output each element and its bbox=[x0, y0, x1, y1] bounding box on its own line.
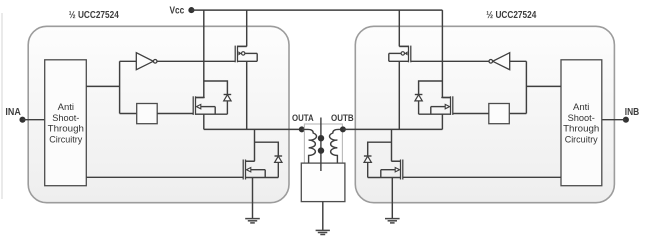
wire Q4 bottom lead bbox=[389, 60, 409, 62]
wire OUTB output line bbox=[343, 128, 443, 130]
figure frame edge (decor line) bbox=[1, 13, 3, 199]
wire anti-block output (left) bbox=[86, 85, 119, 87]
wire Q6 bottom lead bbox=[368, 177, 401, 179]
wire INA to anti-shoot-through block bbox=[23, 119, 45, 121]
diode D2 (left clamp diode) bbox=[275, 156, 283, 178]
anti shoot-through circuitry block (left) bbox=[45, 60, 87, 186]
wire Vcc rail bbox=[191, 9, 442, 11]
wire anti-block output (right) bbox=[526, 85, 561, 87]
transformer T1 bobbin outline bbox=[304, 124, 342, 163]
wire Q3 branch to diode D2 bbox=[255, 142, 279, 156]
svg-text:½ UCC27524: ½ UCC27524 bbox=[486, 10, 536, 21]
wire INB to anti-shoot-through block bbox=[602, 119, 626, 121]
wire Vcc drop to Q2 drain bbox=[203, 10, 205, 97]
inverter U3 (right) bbox=[489, 53, 510, 70]
svg-text:OUTB: OUTB bbox=[331, 113, 354, 124]
wire to inverter input (right) bbox=[510, 60, 527, 62]
diode D3 (right boost diode) bbox=[415, 95, 423, 115]
svg-text:½ UCC27524: ½ UCC27524 bbox=[69, 10, 119, 21]
wire Q5 bottom lead bbox=[419, 113, 451, 115]
wire split vertical (right) bbox=[525, 61, 527, 113]
wire Vcc branch to diode D1 bbox=[204, 81, 228, 95]
wire Q4 top lead bbox=[399, 45, 408, 47]
svg-text:OUTA: OUTA bbox=[292, 113, 314, 124]
diode D1 (left boost diode) bbox=[224, 95, 232, 115]
driver IC block U1A (left half UCC27524) bbox=[28, 26, 289, 202]
ground symbol (right block) bbox=[385, 219, 400, 223]
wire to delay box (right) bbox=[509, 113, 526, 115]
wire OUTA output line bbox=[204, 128, 302, 130]
node Vcc terminal dot bbox=[188, 7, 194, 13]
svg-text:Vcc: Vcc bbox=[170, 6, 185, 17]
node INB terminal dot bbox=[623, 117, 629, 123]
ground symbol (transformer) bbox=[316, 230, 330, 234]
wire Q1 bottom lead bbox=[238, 60, 258, 62]
transistor Q6 (right N-channel pull-down) bbox=[381, 160, 403, 180]
wire Q1 top lead bbox=[238, 45, 247, 47]
wire Vcc drop to Q5 drain bbox=[441, 10, 443, 97]
transformer T1 core line bbox=[320, 118, 322, 172]
wire Q3 bottom lead bbox=[246, 177, 279, 179]
wire Vcc branch to diode D3 bbox=[419, 81, 443, 95]
node INA terminal dot bbox=[19, 117, 25, 123]
wire transformer base to ground bbox=[322, 202, 324, 231]
wire Vcc drop to Q1 source bbox=[246, 10, 248, 46]
transistor Q1 (left P-channel pull-up) bbox=[235, 46, 257, 63]
transformer T1 phasing dot (upper) bbox=[318, 135, 324, 141]
wire delay box to Q5 gate bbox=[453, 113, 489, 115]
transformer T1 secondary winding (right) bbox=[330, 129, 343, 163]
delay box (left) bbox=[137, 104, 158, 124]
wire anti-block to Q3 gate bbox=[86, 176, 243, 178]
wire Q3 source to ground bbox=[252, 178, 254, 219]
transformer T1 primary winding (left) bbox=[302, 129, 317, 163]
wire Q2 top lead bbox=[196, 97, 204, 99]
wire Q6 branch to diode D4 bbox=[368, 142, 392, 156]
wire Q3 drain to OUTA bbox=[254, 129, 256, 161]
wire to delay box (left) bbox=[120, 113, 137, 115]
wire delay box to Q2 gate bbox=[157, 113, 193, 115]
wire Q6 drain to OUTB bbox=[391, 129, 393, 161]
delay box (right) bbox=[489, 104, 510, 124]
wire Q1 drain to OUTA bbox=[246, 61, 248, 129]
wire inverter output to Q4 gate bbox=[411, 60, 489, 62]
wire Q2 bottom lead bbox=[196, 113, 228, 115]
wire inverter output to Q1 gate bbox=[157, 60, 235, 62]
svg-text:INA: INA bbox=[5, 107, 21, 118]
node OUTA junction dot bbox=[299, 126, 305, 132]
wire Q6 drain lead bbox=[392, 160, 401, 162]
wire Q3 drain lead bbox=[246, 160, 255, 162]
wire Q2 source to OUTA bbox=[203, 114, 205, 129]
wire Q5 source to OUTB bbox=[441, 114, 443, 129]
anti shoot-through circuitry block (right) bbox=[561, 60, 602, 186]
transistor Q3 (left N-channel pull-down) bbox=[243, 160, 265, 180]
driver IC block U1B (right half UCC27524) bbox=[355, 26, 614, 202]
transistor Q2 (left N-channel boost pull-up) bbox=[193, 96, 215, 115]
diode D4 (right clamp diode) bbox=[364, 156, 372, 178]
wire split vertical (left) bbox=[119, 61, 121, 113]
wire Q5 top lead bbox=[442, 97, 450, 99]
ground symbol (left block) bbox=[245, 219, 260, 223]
wire Q4 drain to OUTB bbox=[398, 61, 400, 129]
transformer T1 base box bbox=[301, 163, 345, 202]
wire Vcc drop to Q4 source bbox=[398, 10, 400, 46]
wire anti-block to Q6 gate bbox=[403, 176, 561, 178]
node OUTB junction dot bbox=[340, 126, 346, 132]
transistor Q5 (right N-channel boost pull-up) bbox=[431, 96, 453, 115]
inverter U2 (left) bbox=[136, 53, 157, 70]
transistor Q4 (right P-channel pull-up) bbox=[389, 46, 411, 63]
svg-text:INB: INB bbox=[625, 107, 639, 118]
transformer T1 phasing dot (lower) bbox=[318, 147, 324, 153]
wire Q6 source to ground bbox=[391, 178, 393, 219]
wire to inverter input (left) bbox=[120, 60, 137, 62]
